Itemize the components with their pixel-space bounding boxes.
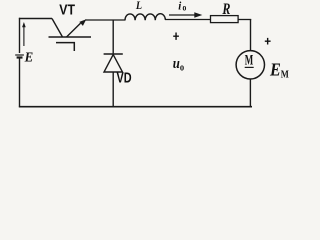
- transistor VT emitter with arrow: [67, 23, 81, 37]
- diode VD cathode bar: [104, 53, 123, 55]
- resistor R body: [211, 16, 239, 23]
- wire: top-left horizontal: [19, 18, 52, 20]
- wire: inductor to resistor: [165, 19, 211, 21]
- battery E bottom plate: [17, 56, 23, 58]
- wire: diode branch lower: [112, 72, 114, 107]
- wire: right rail upper: [250, 19, 252, 51]
- svg-text:u: u: [173, 56, 180, 72]
- svg-text:L: L: [135, 0, 142, 12]
- inductor L coil: [125, 14, 165, 20]
- wire: right rail lower: [249, 79, 251, 107]
- label + (middle): [173, 33, 179, 40]
- svg-text:R: R: [222, 2, 231, 19]
- wire: left rail lower: [19, 58, 21, 108]
- svg-text:M: M: [245, 51, 254, 68]
- wire: left rail upper: [19, 18, 21, 53]
- transistor VT base lead: [56, 43, 74, 51]
- svg-text:M: M: [281, 68, 290, 80]
- current arrow i_o: [169, 14, 196, 16]
- svg-text:VD: VD: [117, 69, 132, 86]
- current arrow (up) beside left rail: [23, 25, 25, 46]
- svg-text:E: E: [24, 49, 34, 65]
- battery E top plate: [15, 54, 24, 56]
- svg-text:o: o: [180, 63, 185, 74]
- svg-text:VT: VT: [59, 2, 75, 18]
- wire: bottom rail: [19, 106, 252, 108]
- diode VD triangle: [104, 55, 123, 72]
- wire: diode branch upper: [112, 20, 114, 54]
- svg-text:E: E: [269, 60, 281, 80]
- svg-text:o: o: [183, 3, 187, 13]
- transistor VT base bar: [49, 36, 92, 38]
- motor M circle: [236, 51, 264, 79]
- label + (motor): [265, 38, 271, 45]
- wire: resistor to right corner: [238, 19, 251, 21]
- transistor VT collector diagonal: [52, 19, 63, 38]
- wire: emitter to inductor: [85, 19, 125, 21]
